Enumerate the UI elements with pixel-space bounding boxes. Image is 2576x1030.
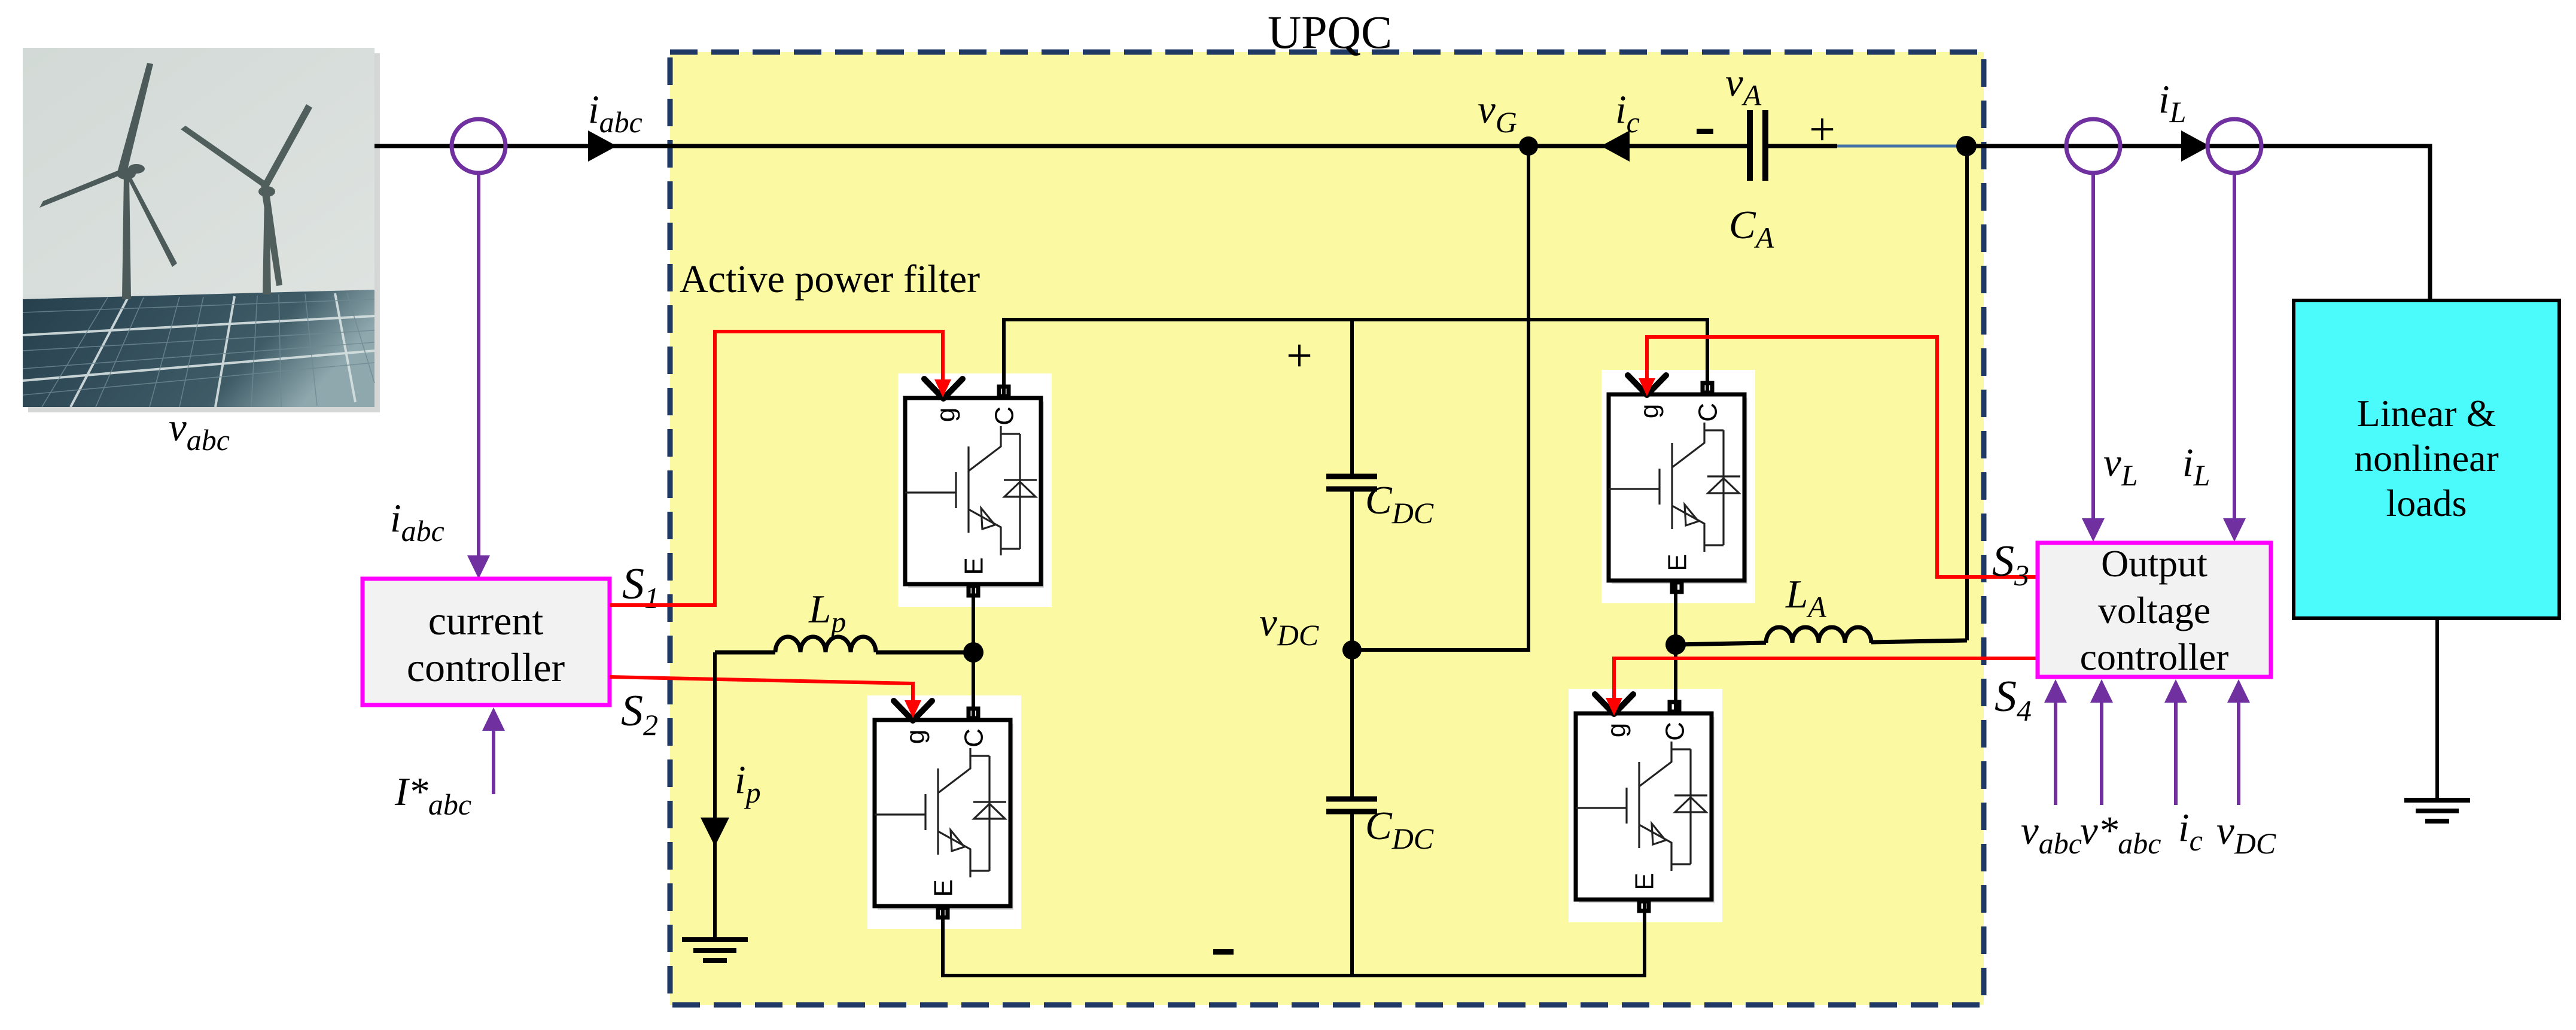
inductor L_A	[1676, 627, 1967, 645]
svg-text:Active power filter: Active power filter	[680, 257, 980, 301]
node right midpoint	[1665, 634, 1686, 655]
label Output voltage controller	[2080, 542, 2229, 678]
IGBT S4 (bottom right)	[1569, 689, 1722, 922]
wire: i_p branch to ground	[701, 652, 729, 938]
svg-text:voltage: voltage	[2098, 589, 2210, 631]
label Linear & nonlinear loads	[2354, 392, 2499, 524]
label current controller	[407, 598, 565, 690]
wire: IGBT1 collector to +DC bus	[1004, 320, 1707, 398]
ground (i_p branch)	[682, 940, 748, 961]
controller feedback arrows (bottom)	[2056, 701, 2239, 805]
red gate wire S3	[1639, 337, 2038, 577]
arrow i_c on bus	[1601, 130, 1630, 162]
purple stem i_L	[2223, 173, 2246, 542]
wire: C_A to injection node (black then blue)	[1765, 144, 1966, 148]
arrow i_abc on bus	[588, 130, 617, 162]
IGBT S3 (top right)	[1601, 370, 1755, 603]
svg-text:controller: controller	[407, 645, 565, 690]
voltage sensor circle (load side)	[2066, 119, 2120, 173]
svg-text:+: +	[1286, 329, 1313, 381]
wire: load box to ground	[2435, 618, 2439, 800]
purple stem v_L	[2082, 173, 2105, 542]
wire: load side bus	[1966, 146, 2430, 300]
IGBT S2 (bottom left)	[867, 695, 1021, 929]
arrow i_L on bus	[2181, 130, 2210, 162]
UPQC region (yellow dashed box)	[670, 52, 1984, 1005]
red gate wire S2 to IGBT2	[610, 677, 921, 718]
svg-text:UPQC: UPQC	[1268, 6, 1392, 58]
node v_G	[1519, 136, 1538, 156]
ground (load)	[2404, 800, 2470, 821]
wire: v_G drop line	[1352, 146, 1528, 650]
wire: left arm midpoint vertical	[972, 584, 975, 720]
wind turbine 2	[181, 104, 312, 294]
node injection point	[1956, 136, 1977, 156]
wire: negative DC bus	[943, 901, 1645, 976]
svg-text:Output: Output	[2101, 542, 2207, 585]
label minus (C_A)	[1697, 129, 1713, 134]
wire: right arm midpoint vertical	[1674, 580, 1677, 713]
series capacitor C_A	[1750, 110, 1765, 181]
output voltage controller box	[2038, 543, 2271, 677]
wind turbine 1	[39, 63, 177, 299]
red gate wire S4	[1606, 658, 2038, 716]
label - (dc bus)	[1213, 949, 1234, 955]
current controller box	[363, 579, 610, 705]
wire: main AC bus from source to series capacitor	[374, 144, 1750, 148]
capacitor C_DC upper	[1326, 476, 1377, 489]
node left midpoint	[963, 642, 983, 663]
source photo: wind turbines and solar panels	[23, 48, 380, 412]
svg-text:current: current	[428, 598, 544, 643]
load box	[2294, 300, 2559, 618]
red gate wire S1 to IGBT1	[610, 332, 951, 605]
svg-text:nonlinear: nonlinear	[2354, 437, 2499, 479]
current sensor circle (load side)	[2207, 119, 2261, 173]
svg-text:controller: controller	[2080, 636, 2229, 678]
current sensor circle (source side)	[452, 119, 506, 173]
svg-text:Linear &: Linear &	[2357, 392, 2496, 435]
IGBT S1 (top left)	[898, 373, 1052, 607]
wire: injection branch vertical to bus node	[1965, 146, 1969, 640]
svg-text:loads: loads	[2386, 482, 2467, 524]
capacitor C_DC lower	[1326, 799, 1377, 812]
inductor L_p	[715, 637, 964, 652]
node v_DC	[1342, 640, 1362, 660]
wire: DC link vertical with capacitors	[1350, 320, 1354, 976]
reference input I*_abc arrow	[482, 707, 505, 794]
purple stem from sensor to current controller	[467, 173, 490, 579]
